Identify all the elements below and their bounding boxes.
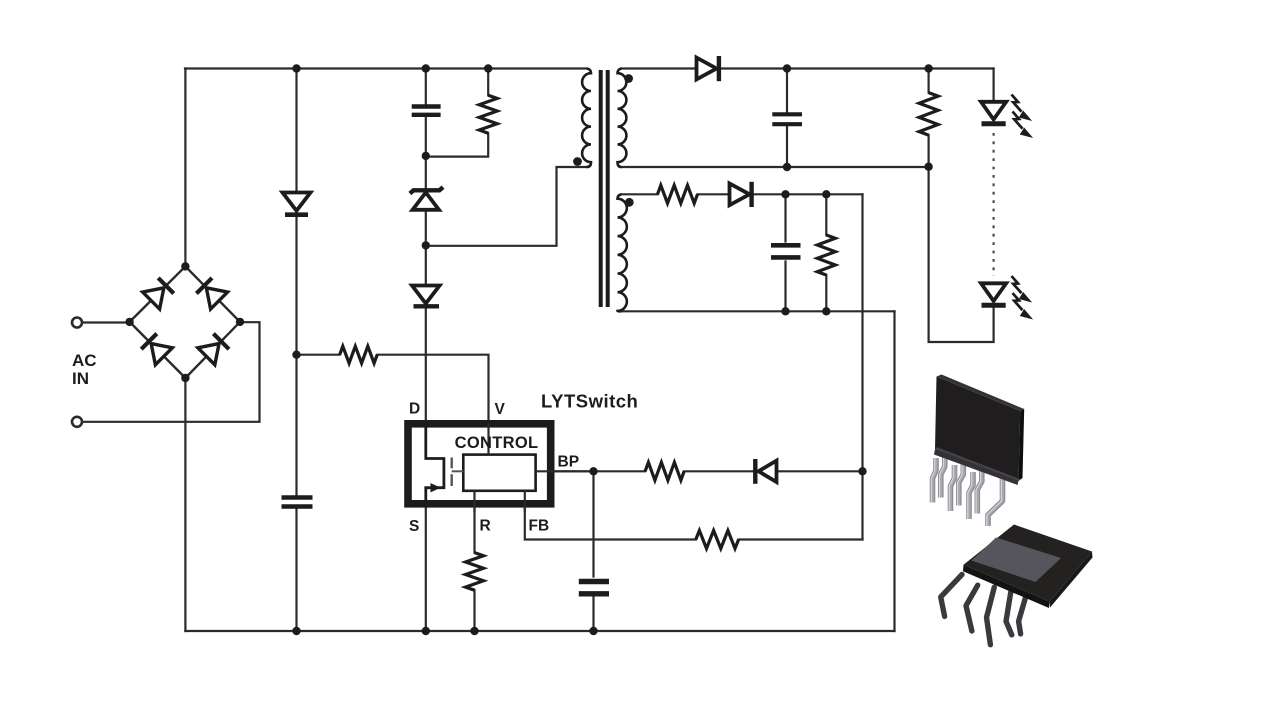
- capacitor Cout2: [771, 245, 801, 257]
- node top rail / snubber cap: [422, 64, 430, 72]
- wire blocking diode to drain pin: [425, 307, 427, 459]
- wire snubber cap bottom to node: [425, 117, 427, 189]
- bridge diode lower-right: [198, 333, 230, 365]
- wire AC bottom lead: [83, 322, 260, 422]
- transistor source arrow: [431, 483, 441, 492]
- wire right riser x862: [861, 194, 863, 539]
- wire top rail: [185, 67, 587, 69]
- wire sec2 resistor to diode: [698, 193, 729, 195]
- resistor Rfb (FB series): [696, 531, 739, 549]
- svg-text:CONTROL: CONTROL: [455, 434, 539, 452]
- wire zener to node2: [425, 212, 427, 285]
- wire FB pin run: [525, 507, 696, 540]
- node input branch / V feed: [292, 351, 300, 359]
- wire output cap1 bottom: [786, 127, 788, 167]
- diode Dbp (BP line, cathode left): [755, 459, 776, 484]
- wire sec2 top run: [621, 193, 658, 195]
- node bridge DC-: [181, 374, 189, 382]
- wire BP run to resistor: [555, 470, 646, 472]
- wire sec2 load resistor top: [825, 194, 827, 235]
- wire sec1 diode to LED branch: [722, 67, 994, 69]
- resistor Rs2 (sec2 series): [658, 185, 698, 203]
- wire AC top lead: [83, 321, 130, 323]
- capacitor Csn: [412, 107, 441, 115]
- bridge diode lower-left: [141, 333, 173, 365]
- node sec2 out / cap2: [781, 190, 789, 198]
- wire output cap2 bottom: [784, 262, 786, 312]
- IC package photo eSOP (flat): [941, 525, 1093, 645]
- wire FB pin from control box: [524, 491, 526, 512]
- phase dot secondary 1: [624, 74, 633, 83]
- node sec2 return / cap2: [781, 307, 789, 315]
- AC input terminal top: [72, 318, 82, 328]
- wire BP resistor to diode: [684, 470, 753, 472]
- transformer primary winding: [582, 69, 591, 168]
- diode Dout1 (sec1 rectifier): [697, 56, 719, 81]
- resistor Ro2 (sec2 load): [817, 235, 835, 275]
- bridge diode upper-right: [196, 277, 228, 309]
- diode Dout2 (sec2 rectifier): [730, 182, 752, 207]
- svg-text:BP: BP: [558, 454, 580, 471]
- node BP net: [589, 467, 597, 475]
- node bridge AC left: [125, 318, 133, 326]
- wire input branch x296 lower: [295, 508, 297, 631]
- wire bridge bottom to bottom rail: [184, 378, 186, 631]
- body: [934, 449, 1019, 485]
- transistor Q (power MOSFET): [426, 420, 464, 507]
- wire source pin to bottom rail: [425, 488, 427, 631]
- LED1: [981, 102, 1006, 124]
- wire input branch x296 middle: [295, 218, 297, 497]
- wire sec2 diode to corner: [754, 193, 863, 195]
- wire secondary1 top run: [621, 67, 695, 69]
- wire sec2 load resistor bottom: [825, 275, 827, 311]
- bridge diode upper-left: [143, 277, 175, 309]
- diode Din (input branch, cathode down): [283, 193, 311, 215]
- wire LED bleeder resistor bottom: [927, 135, 929, 167]
- phase dot primary: [573, 157, 582, 166]
- resistor Rbp (BP series): [645, 462, 684, 480]
- wire FB resistor to right riser: [739, 538, 863, 540]
- transformer secondary 1 winding: [618, 69, 627, 168]
- svg-text:D: D: [409, 401, 420, 418]
- node BP diode / riser: [858, 467, 866, 475]
- node output1 rail / cap: [783, 64, 791, 72]
- node bridge DC+: [181, 262, 189, 270]
- resistor Rsn (snubber): [479, 95, 497, 133]
- capacitor Cbp: [579, 582, 609, 594]
- node output1 return / cap: [783, 163, 791, 171]
- wire R pin upper: [473, 507, 475, 553]
- wire V pin into control box: [487, 423, 489, 455]
- zener VR (clamp, cathode up): [410, 187, 443, 210]
- leads (light gray): [933, 452, 1003, 526]
- wire left rail down to bridge top: [184, 69, 186, 267]
- node bottom rail / input branch: [292, 627, 300, 635]
- wire LED bleeder resistor top: [927, 69, 929, 93]
- svg-text:AC: AC: [72, 351, 97, 370]
- phase dot secondary 2: [625, 198, 634, 207]
- wire BP cap branch lower: [592, 598, 594, 632]
- svg-text:IN: IN: [72, 369, 89, 388]
- wire output cap1 top: [786, 69, 788, 112]
- wire sec2 bottom rail: [621, 310, 895, 312]
- capacitor Cout1: [772, 114, 802, 124]
- AC input terminal bottom: [72, 417, 82, 427]
- leads (dark): [941, 575, 1026, 645]
- wire output cap2 top: [784, 194, 786, 241]
- svg-text:R: R: [480, 518, 491, 535]
- node bottom rail / S pin: [422, 627, 430, 635]
- wire BP diode to right riser: [779, 470, 863, 472]
- node output1 rail / bleeder: [924, 64, 932, 72]
- IC package photo eSIP (standing): [931, 375, 1024, 527]
- node clamp top: [422, 152, 430, 160]
- bridge rectifier BR1: [130, 266, 240, 378]
- wire V-line from node right: [297, 354, 340, 356]
- node top rail / snubber resistor: [484, 64, 492, 72]
- node sec2 out / load resistor: [822, 190, 830, 198]
- dashed LED string link: [992, 133, 994, 276]
- LED2 emission arrows: [1012, 276, 1030, 317]
- body: [964, 525, 1093, 602]
- LED2: [981, 283, 1006, 305]
- resistor Rmid (V-pin feed): [340, 346, 378, 363]
- svg-text:FB: FB: [529, 518, 550, 535]
- svg-text:LYTSwitch: LYTSwitch: [541, 391, 638, 412]
- control block box: [463, 455, 535, 491]
- wire snubber resistor top: [487, 69, 489, 96]
- node sec2 return / load resistor: [822, 307, 830, 315]
- wire BP pin from control box: [536, 470, 594, 472]
- wire LED string top: [992, 69, 994, 101]
- transformer secondary 2 winding: [618, 194, 627, 311]
- resistor Rr (R pin): [466, 553, 484, 591]
- wire bottom rail: [185, 630, 894, 632]
- IC U1 LYTSwitch outline: [408, 424, 551, 504]
- diode Dblk (blocking, cathode down): [412, 286, 440, 307]
- node bottom rail / R resistor: [470, 627, 478, 635]
- wire BP cap branch upper: [592, 471, 594, 576]
- node output1 return / bleeder: [924, 163, 932, 171]
- wire input branch x296 upper: [295, 69, 297, 192]
- wire right riser x894: [893, 311, 895, 631]
- capacitor Cin: [282, 498, 313, 507]
- wire primary return to clamp node: [426, 167, 587, 246]
- svg-text:S: S: [409, 518, 419, 535]
- node top rail / input branch: [292, 64, 300, 72]
- wire snubber resistor bottom loop: [426, 133, 488, 156]
- wire sec1 bottom rail: [621, 166, 929, 168]
- node bottom rail / BP cap: [589, 627, 597, 635]
- exposed pad: [972, 538, 1062, 583]
- wire snubber cap top: [425, 69, 427, 105]
- resistor Rled (bleeder): [919, 93, 938, 136]
- wire resistor Rmid to V corner: [377, 355, 488, 455]
- transformer T1 core: [601, 70, 608, 307]
- LED1 emission arrows: [1012, 95, 1030, 136]
- svg-text:V: V: [495, 401, 506, 418]
- node clamp bottom: [422, 241, 430, 249]
- wire R pin lower: [473, 590, 475, 631]
- node bridge AC right: [236, 318, 244, 326]
- wire LED string bottom: [929, 167, 994, 342]
- wire R pin from control box: [473, 491, 475, 512]
